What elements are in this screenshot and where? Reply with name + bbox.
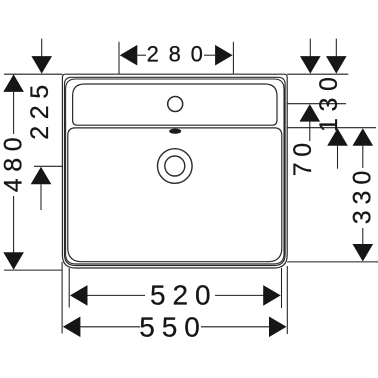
dim 280 text [147, 42, 203, 67]
svg-text:0: 0 [289, 143, 317, 157]
dim 225 top arrow [31, 56, 52, 74]
svg-text:5: 5 [162, 312, 178, 343]
dim 330 bottom arrow [353, 244, 374, 262]
overflow hole [170, 129, 181, 133]
dim 550 left tail [80, 326, 140, 328]
deck extension line right [287, 127, 376, 129]
svg-text:0: 0 [349, 171, 377, 185]
washbasin outer contour A [62, 74, 287, 268]
dim 280 right tail [204, 54, 215, 56]
faucet center extension line [287, 103, 346, 105]
svg-text:0: 0 [191, 42, 203, 67]
svg-text:8: 8 [169, 42, 181, 67]
svg-text:0: 0 [184, 312, 200, 343]
dim 225 bottom arrow [31, 167, 52, 185]
dim 280 ext line left [118, 42, 120, 74]
dim 520 ext line right [281, 268, 283, 308]
dim 130 top tail [335, 39, 337, 58]
drain outer circle [158, 149, 193, 184]
svg-text:3: 3 [315, 98, 343, 112]
inner ledge opening D [73, 84, 277, 125]
dim 70 top arrow [300, 56, 321, 74]
dim 70 bottom arrow [300, 104, 321, 122]
dim 70 bottom tail [309, 122, 311, 141]
dim 280 left arrow [120, 45, 138, 66]
dim 330 line lower [362, 228, 364, 245]
dim 550 ext line left [61, 262, 63, 334]
svg-text:3: 3 [349, 191, 377, 205]
svg-text:5: 5 [139, 312, 155, 343]
dim 130 text [315, 77, 343, 132]
dim 280 right arrow [215, 45, 233, 66]
dim 520 right tail [215, 294, 264, 296]
svg-text:2: 2 [26, 126, 54, 140]
faucet hole [168, 97, 183, 112]
dim 480 bottom arrow [3, 252, 24, 270]
top extension line left [4, 73, 62, 75]
svg-text:2: 2 [173, 280, 189, 311]
dim 550 right arrow [269, 317, 287, 338]
dim 520 ext line left [68, 268, 70, 308]
svg-text:0: 0 [195, 280, 211, 311]
washbasin contour C [66, 79, 284, 264]
dim 550 text [139, 312, 200, 343]
dim 70 text [289, 143, 317, 176]
dim 330 top arrow [353, 128, 374, 146]
dim 480 line lower [13, 196, 15, 253]
dim 480 text [0, 137, 27, 192]
dim 520 left tail [88, 294, 146, 296]
svg-text:3: 3 [349, 210, 377, 224]
dim 225 top tail [41, 39, 43, 57]
bowl front extension line right [287, 261, 378, 263]
dim 480 line upper [13, 92, 15, 134]
dim 550 right tail [201, 326, 269, 328]
dim 225 bottom tail [40, 184, 42, 210]
svg-text:2: 2 [147, 42, 159, 67]
dim 225 text [26, 85, 54, 140]
drain center extension line left [34, 165, 63, 167]
washbasin contour B [65, 77, 286, 265]
dim 550 ext line right [286, 266, 288, 334]
svg-text:0: 0 [0, 137, 27, 151]
dim 280 left tail [137, 54, 146, 56]
svg-text:5: 5 [150, 280, 166, 311]
dim 480 top arrow [3, 74, 24, 92]
dim 330 text [349, 171, 377, 225]
dim 330 line upper [362, 146, 364, 168]
svg-text:0: 0 [315, 77, 343, 91]
dim 520 text [150, 280, 211, 311]
svg-text:1: 1 [315, 118, 343, 132]
dim 550 left arrow [63, 317, 81, 338]
svg-text:4: 4 [0, 178, 27, 192]
dim 280 ext line right [232, 42, 234, 74]
bowl contour [68, 128, 282, 262]
dim 130 bottom tail [337, 146, 339, 169]
outer front extension line left [4, 269, 62, 271]
dim 520 left arrow [70, 285, 88, 306]
dim 130 top arrow [326, 56, 347, 74]
drain inner circle [165, 156, 185, 176]
svg-text:8: 8 [0, 158, 27, 172]
svg-text:5: 5 [26, 85, 54, 99]
top extension line right [287, 73, 348, 75]
dim 520 right arrow [263, 285, 281, 306]
dim 130 bottom arrow [327, 128, 348, 146]
svg-text:7: 7 [289, 162, 317, 176]
dim 70 top tail [309, 39, 311, 58]
svg-text:2: 2 [26, 105, 54, 119]
